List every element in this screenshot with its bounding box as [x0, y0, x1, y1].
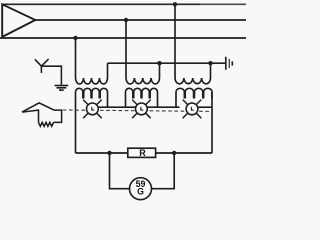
wire: rail segment T3-right	[198, 106, 212, 108]
earth symbol (right end of neutral bus)	[226, 57, 233, 70]
wire: T2 secondary left leg to rail	[125, 98, 127, 107]
lamp E1	[83, 100, 102, 119]
wire: T1 primary right terminal up to earth bus	[107, 63, 109, 78]
ground (antenna)	[55, 86, 69, 91]
transformer T2 primary winding	[126, 78, 160, 84]
resistor R	[128, 148, 156, 158]
transformer T3 secondary winding	[176, 88, 212, 98]
transformer T1 secondary winding	[76, 88, 108, 98]
wire: drop from L3 to T1 primary	[75, 38, 77, 78]
svg-text:R: R	[139, 148, 146, 158]
transformer T3 primary winding	[175, 78, 211, 84]
incoming feeder triangle	[2, 4, 35, 37]
wire: bottom loop conductor	[76, 152, 213, 154]
wire: phase line L1 (top)	[2, 3, 200, 5]
wire: phase line L2 (middle)	[35, 19, 246, 21]
lamp E2	[132, 100, 151, 119]
antenna symbol	[35, 59, 62, 85]
wire: T3 secondary right leg down to bottom loop	[211, 92, 213, 153]
wire: relay branch left drop	[110, 153, 130, 189]
wire: drop from L2 to T2 primary	[125, 20, 127, 78]
wire: phase line L3 (bottom)	[0, 37, 246, 39]
wire: T1 secondary right leg to rail	[107, 98, 109, 107]
relay 59G	[130, 178, 152, 200]
node on L1 at x=175	[173, 2, 177, 6]
wire: drop from L1 to T3 primary	[174, 4, 176, 78]
node on L2 at x=126	[124, 18, 128, 22]
wire: T2 secondary right leg to rail	[157, 98, 159, 107]
lamp E3	[183, 100, 202, 119]
wire: T1 secondary left leg down to bottom loop	[75, 98, 77, 153]
wire: rail segment T1-T2	[98, 106, 135, 108]
dashed lamp axis line	[63, 110, 212, 111]
node on L3 at x=75.5	[73, 36, 77, 40]
wire: T3 secondary left leg to rail	[175, 98, 177, 107]
node: T3 primary to earth bus	[208, 61, 212, 65]
transformer T1 primary winding	[76, 78, 108, 84]
surge arrester / arrow symbol with resistive element	[22, 103, 62, 126]
node: relay branch left	[107, 151, 111, 155]
wire: common neutral/earth bus	[108, 62, 226, 64]
node: relay branch right	[172, 151, 176, 155]
node: T2 primary to earth bus	[157, 61, 161, 65]
transformer T2 secondary winding	[126, 88, 158, 98]
wire: T2 primary right terminal up to earth bus	[159, 63, 161, 78]
wire: T3 primary right terminal up to earth bus	[210, 63, 212, 78]
wire: relay branch right drop	[152, 153, 175, 189]
wire: rail segment T2-T3	[147, 106, 179, 108]
svg-text:G: G	[137, 187, 144, 197]
